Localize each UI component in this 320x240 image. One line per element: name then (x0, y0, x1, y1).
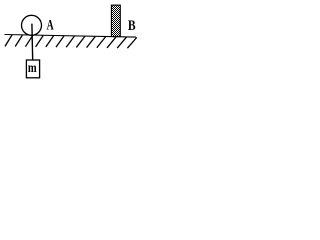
ground hatch 9 (87, 37, 96, 48)
ground hatch 11 (107, 37, 116, 48)
block B (stippled) (111, 5, 120, 36)
ground hatch 2 (15, 35, 22, 46)
ground hatch 3 (25, 35, 32, 46)
ground hatch 10 (97, 37, 106, 48)
ground hatch 5 (46, 36, 54, 47)
ground hatch 4 (36, 36, 44, 47)
ground hatch 7 (66, 36, 74, 47)
ground hatch 8 (76, 36, 84, 47)
ground hatch 13 (127, 37, 136, 48)
ground hatch 1 (5, 35, 12, 46)
string from pulley A down to mass m (31, 24, 34, 61)
ground hatch 12 (117, 37, 126, 48)
ground line (5, 35, 137, 38)
svg-text:A: A (47, 16, 55, 33)
ground hatch 6 (56, 36, 64, 47)
pulley axle string inside circle (31, 24, 33, 36)
mass box m (26, 60, 39, 78)
svg-text:m: m (28, 60, 37, 76)
pulley A (circle) (22, 15, 42, 35)
svg-text:B: B (128, 17, 136, 34)
